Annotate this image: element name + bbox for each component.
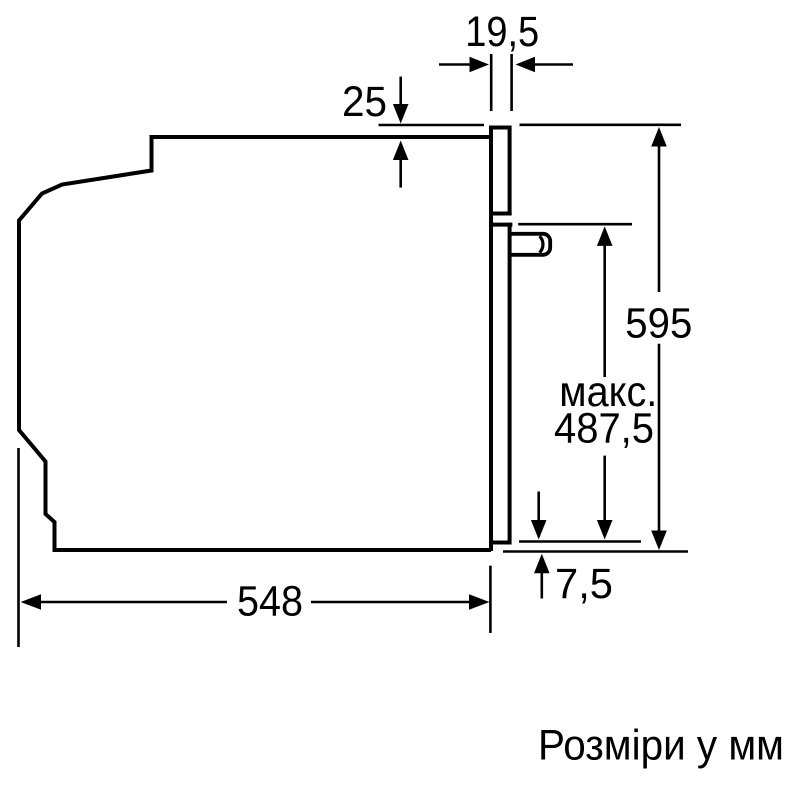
svg-text:548: 548 bbox=[237, 579, 303, 626]
dim 595: down arrowhead bbox=[651, 531, 667, 551]
dim 25: down arrowhead bbox=[393, 104, 409, 124]
dim 595: bottom reference line bbox=[503, 550, 688, 553]
door lower-section top edge bbox=[489, 223, 512, 227]
dim 7,5: down arrow shaft bbox=[537, 492, 540, 522]
dim 595: lower shaft bbox=[658, 344, 661, 532]
dim 487,5: up arrowhead bbox=[597, 226, 613, 246]
dim 25: up arrow shaft bbox=[399, 159, 402, 188]
dim 487,5: top reference line bbox=[518, 223, 632, 226]
dim 548: extension line left bbox=[17, 448, 20, 647]
door top-section right edge bbox=[508, 126, 512, 216]
dim 595: up arrowhead bbox=[651, 127, 667, 147]
door top edge bbox=[489, 126, 512, 130]
dim 7,5: up arrowhead bbox=[534, 554, 550, 574]
dim 25: reference line bbox=[379, 124, 485, 127]
svg-text:487,5: 487,5 bbox=[554, 406, 654, 453]
dim 548: right arrowhead bbox=[469, 594, 490, 610]
door handle bbox=[512, 234, 551, 255]
door top-section bottom edge bbox=[489, 212, 512, 216]
dim 487,5: upper shaft bbox=[603, 245, 606, 377]
dim 19,5: left arrow line bbox=[439, 63, 471, 66]
dim 487,5: bottom reference line bbox=[519, 540, 641, 543]
dim 25: down arrow shaft bbox=[399, 77, 402, 106]
dim 7,5: up arrow shaft bbox=[540, 572, 543, 598]
dim 548: extension line right bbox=[489, 566, 492, 633]
door bottom edge bbox=[489, 541, 512, 545]
svg-text:595: 595 bbox=[625, 300, 692, 347]
dim 19,5: extension line right bbox=[510, 54, 513, 111]
dim 595: top reference line bbox=[520, 124, 682, 127]
dim 19,5: right arrow line bbox=[534, 63, 573, 66]
dim 595: upper shaft bbox=[658, 146, 661, 293]
dim 19,5: extension line left bbox=[490, 54, 493, 111]
svg-text:19,5: 19,5 bbox=[465, 9, 539, 56]
dim 19,5: left arrowhead bbox=[470, 57, 490, 73]
dim 548: left line bbox=[40, 601, 227, 604]
svg-text:Розміри у мм: Розміри у мм bbox=[538, 721, 784, 769]
dim 25: up arrowhead bbox=[393, 141, 409, 161]
dim 19,5: right arrowhead bbox=[516, 57, 536, 73]
oven body outline bbox=[19, 137, 491, 550]
handle inner arc bbox=[540, 236, 543, 252]
door front frame: left edge bbox=[489, 126, 493, 552]
svg-text:7,5: 7,5 bbox=[555, 561, 613, 608]
dim 548: left arrowhead bbox=[21, 594, 41, 610]
dim 548: right line bbox=[311, 601, 470, 604]
dim 7,5: down arrowhead bbox=[531, 520, 547, 540]
dim 487,5: lower shaft bbox=[603, 456, 606, 521]
svg-text:25: 25 bbox=[342, 79, 387, 126]
door lower-section right edge bbox=[508, 223, 512, 545]
dim 487,5: down arrowhead bbox=[597, 520, 613, 540]
